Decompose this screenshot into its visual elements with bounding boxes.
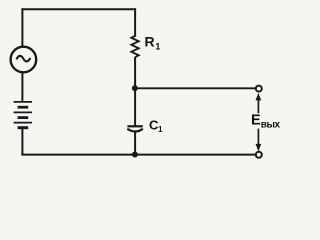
terminal top xyxy=(256,86,262,92)
resistor R1 xyxy=(131,36,138,57)
wire middle rail xyxy=(135,87,256,89)
wire top rail xyxy=(21,8,136,10)
arrow up xyxy=(256,93,262,113)
wire bottom rail xyxy=(21,154,255,156)
wire middle vertical lower (capacitor to bottom rail) xyxy=(134,132,136,155)
terminal bottom xyxy=(256,152,262,158)
svg-text:1: 1 xyxy=(155,42,160,52)
capacitor C1 xyxy=(127,126,143,131)
arrow down xyxy=(256,129,262,152)
wire left vertical upper xyxy=(21,8,23,47)
AC source xyxy=(11,47,37,73)
svg-text:R: R xyxy=(145,34,155,50)
label E vyh xyxy=(251,113,283,131)
battery xyxy=(14,102,32,128)
label C1 xyxy=(149,117,163,134)
label R1 xyxy=(145,34,161,52)
wire middle vertical (junction to capacitor) xyxy=(134,88,136,126)
svg-text:E: E xyxy=(251,113,261,129)
wire middle vertical (resistor to junction) xyxy=(134,57,136,89)
wire middle vertical upper xyxy=(134,8,136,36)
junction dot bottom xyxy=(132,152,138,158)
svg-text:1: 1 xyxy=(158,125,163,134)
wire left vertical lower xyxy=(21,129,23,156)
svg-text:вых.: вых. xyxy=(261,120,280,131)
wire left vertical middle xyxy=(21,73,23,102)
junction dot middle xyxy=(132,85,138,91)
